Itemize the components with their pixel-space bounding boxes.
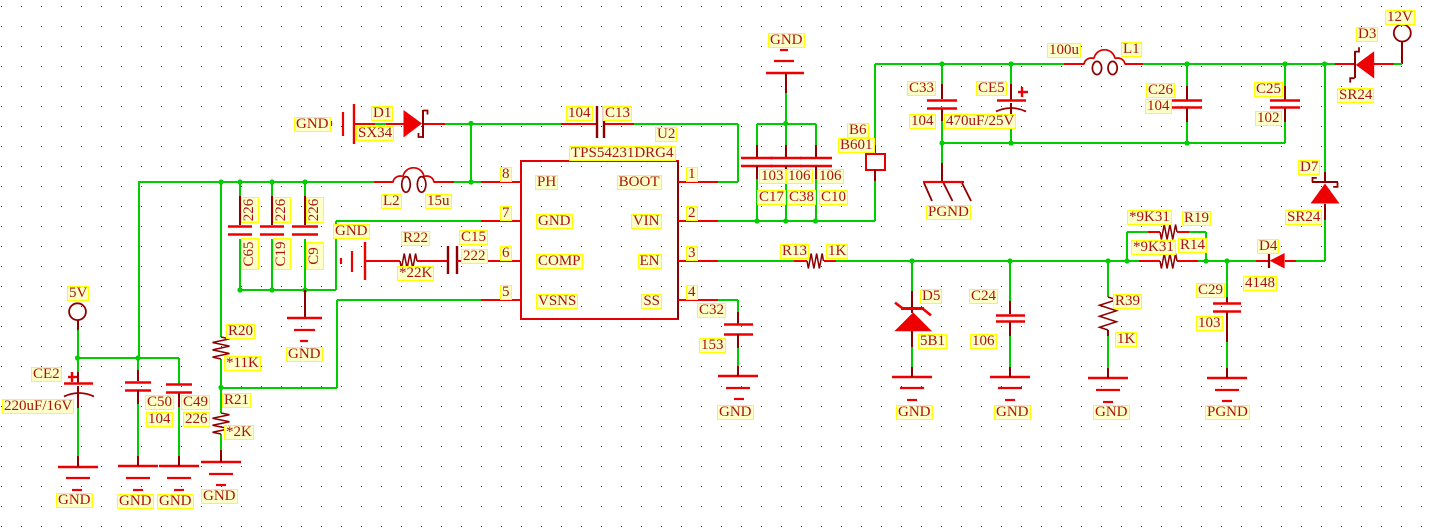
wire top rail VOUT y=64 from B6 to 12V	[875, 63, 1064, 65]
inductor L2 15u	[374, 181, 393, 183]
wire VSNS row y=300	[337, 299, 481, 301]
label 226 C65 rotated	[241, 197, 259, 223]
resistor R14 *9K31	[1139, 260, 1160, 262]
label 104 C26	[1145, 99, 1172, 114]
ground sideways for D1	[353, 104, 355, 144]
wire VSNS vertical x=337	[336, 300, 338, 388]
label C10	[819, 190, 848, 205]
label 103 C29	[1196, 316, 1223, 331]
capacitor C15 222	[447, 246, 449, 274]
label 106 C10	[817, 169, 844, 184]
label D5	[920, 289, 942, 304]
pin number 2	[686, 206, 698, 221]
label GND R22	[333, 224, 370, 239]
wire feedback row y=387.5	[221, 387, 337, 389]
pin name BOOT	[617, 175, 662, 190]
label 1K R13	[826, 244, 848, 259]
label C50	[145, 395, 174, 410]
wire CE5 drops	[1010, 64, 1012, 84]
wire D1 node row y=123.5	[445, 123, 561, 125]
label PGND C33	[926, 205, 971, 220]
label C38	[787, 190, 816, 205]
label GND under C9	[286, 347, 323, 362]
label 153 C32	[699, 338, 726, 353]
ground PGND under C29	[1207, 377, 1247, 379]
label C15	[459, 230, 488, 245]
power port 5V	[69, 303, 86, 320]
ground under C50	[118, 465, 158, 467]
pin number 3	[686, 246, 698, 261]
resistor R19 *9K31	[1148, 231, 1160, 233]
label 226 C49	[183, 412, 210, 427]
capacitor C10 106	[815, 145, 817, 158]
capacitor C50 104	[137, 370, 139, 381]
label 102 C25	[1255, 111, 1282, 126]
pin name VIN	[631, 214, 662, 229]
pin name VSNS	[536, 294, 578, 309]
label 104 C13	[566, 106, 593, 121]
wire R39 drops	[1107, 261, 1109, 297]
label 103 C17	[759, 169, 786, 184]
IC U2 TPS54231DRG4 body	[521, 161, 678, 319]
wire C24 drops	[1009, 261, 1011, 301]
capacitor CE2 220uF/16V electrolytic	[77, 372, 79, 383]
label PGND under C29	[1205, 405, 1250, 420]
wire 5V row y=358	[78, 357, 179, 359]
junction dots	[468, 121, 473, 126]
inductor L1 100u	[1064, 63, 1084, 65]
label 1K R39	[1115, 332, 1137, 347]
label B6	[847, 123, 869, 138]
capacitor C32 153	[737, 312, 739, 324]
label 220uF/16V	[2, 399, 74, 414]
wire 12V drop	[1401, 41, 1403, 64]
wire B6 bottom riser	[874, 181, 876, 221]
wire D4 to D7 segment	[1296, 260, 1325, 262]
label 12V	[1385, 10, 1415, 25]
label C33	[907, 81, 936, 96]
label C65 rotated	[241, 238, 259, 270]
wire R20-R21 segments	[220, 359, 222, 388]
wire rail-B y=143 C33..C25	[942, 142, 1285, 144]
label D7	[1298, 160, 1320, 175]
plus sign CE5	[1018, 91, 1028, 93]
label GND under R39	[1093, 405, 1130, 420]
pin number 7	[500, 206, 512, 221]
wire CE2 drops	[77, 330, 79, 358]
label 5B1	[918, 334, 947, 349]
label R19	[1182, 211, 1211, 226]
capacitor C26 104	[1186, 86, 1188, 100]
diode D3 SR24 schottky	[1335, 63, 1354, 65]
pin name PH	[535, 175, 558, 190]
wire R21 drop to gnd	[220, 434, 222, 450]
diode D4 4148	[1250, 260, 1256, 262]
capacitor C29 103	[1226, 297, 1228, 303]
label 104 C50	[146, 412, 173, 427]
label C24	[969, 289, 998, 304]
label GND under R21	[201, 489, 238, 504]
capacitor C24 106	[1009, 301, 1011, 314]
resistor R22 *22K	[365, 260, 400, 262]
label L2	[381, 194, 402, 209]
label R22	[401, 231, 430, 246]
wire C32 drops	[737, 348, 739, 366]
pin name GND	[536, 214, 573, 229]
label 9K31 R19	[1127, 210, 1172, 225]
resistor R39 1K vertical	[1100, 297, 1117, 330]
wire D1 junction drop x=471	[470, 124, 472, 182]
label GND top	[768, 33, 805, 48]
label B601	[838, 138, 875, 153]
wire C49 drops	[178, 407, 180, 456]
resistor R21 *2K vertical	[213, 413, 230, 434]
wire R20 top drop	[220, 182, 222, 337]
zener diode D5 5B1	[911, 291, 913, 313]
label R39	[1113, 294, 1142, 309]
label SR24 D7	[1285, 210, 1322, 225]
wire D5 drops	[911, 261, 913, 291]
wire GND stem to C38 col	[785, 93, 787, 124]
label D4	[1257, 239, 1279, 254]
wire C29 drops	[1226, 261, 1228, 297]
wire EN row y=261	[718, 260, 794, 262]
resistor R13 1K	[794, 260, 807, 262]
label GND under D5	[896, 405, 933, 420]
wire C50 drops	[137, 358, 139, 370]
ground under C24	[990, 376, 1030, 378]
capacitor C49 226	[166, 383, 192, 386]
capacitor C38 106	[785, 145, 787, 158]
pin number 4	[686, 285, 698, 300]
label 9K31 R14	[1131, 240, 1176, 255]
pin number 6	[500, 246, 512, 261]
pin name COMP	[536, 254, 583, 269]
label C29	[1196, 283, 1225, 298]
pin name SS	[641, 294, 662, 309]
label C49	[181, 395, 210, 410]
pin number 8	[500, 167, 512, 182]
ground PGND hatched under C33	[941, 163, 943, 182]
label CE5	[976, 81, 1007, 96]
ground under CE2	[58, 466, 98, 468]
label 100u	[1047, 43, 1081, 58]
label 226 C9 rotated	[306, 197, 324, 223]
capacitor C17 103	[756, 145, 758, 158]
label GND under C32	[717, 405, 754, 420]
wire R19 branch	[1126, 232, 1128, 261]
diode D7 SR24 schottky vertical	[1324, 172, 1326, 182]
label C26	[1146, 83, 1175, 98]
wire left vertical x=139	[138, 181, 140, 358]
wire SS row y=300	[718, 299, 738, 301]
label *11K	[224, 356, 261, 371]
wire VIN row y=221	[718, 220, 875, 222]
capacitors C65 C19 C9 226	[228, 225, 252, 228]
wire C33 drops	[941, 64, 943, 84]
wire C17 top bus y=123.5	[757, 123, 816, 125]
ground sideways for R22	[364, 242, 366, 280]
label 104 C33	[909, 114, 936, 129]
label C19 rotated	[273, 238, 291, 270]
label GND under C24	[994, 405, 1031, 420]
IC U2 pin stubs	[481, 181, 522, 183]
label 4148	[1243, 276, 1277, 291]
label C13	[603, 106, 632, 121]
ground under C32	[718, 375, 758, 377]
wire PH row y=182 left rail	[139, 181, 374, 183]
capacitor C25 102	[1284, 86, 1286, 100]
wire C49 drop x=179	[178, 358, 180, 384]
ground under D5	[892, 376, 932, 378]
wire C65 stems green	[239, 182, 241, 196]
wire D7 top riser	[1324, 64, 1326, 172]
resistor R20 *11K vertical	[213, 337, 230, 359]
diode D1 SX34 schottky	[355, 123, 375, 125]
label SR24 D3	[1337, 88, 1374, 103]
ground under R21	[201, 461, 241, 463]
label *22K	[397, 266, 434, 281]
ground under C9 column	[304, 290, 306, 318]
ground under C49	[159, 465, 199, 467]
power port 12V	[1394, 25, 1411, 42]
capacitor CE5 470uF/25V electrolytic	[1010, 84, 1012, 100]
ground under R39	[1088, 377, 1128, 379]
label 226 C19 rotated	[273, 197, 291, 223]
label C9 rotated	[306, 242, 324, 270]
label L1	[1121, 42, 1142, 57]
wire GND pin7 row y=221	[336, 220, 481, 222]
ferrite bead B6 B601	[874, 145, 876, 154]
label GND under C50	[117, 494, 154, 509]
label U2	[655, 127, 677, 142]
label 470uF/25V	[944, 114, 1016, 129]
wire B6 top riser	[874, 64, 876, 145]
label *2K	[224, 425, 254, 440]
wire pin7 vertical x=336	[335, 221, 337, 290]
label GND under C49	[157, 494, 194, 509]
label 15u	[425, 194, 452, 209]
label GND for D1	[294, 117, 331, 132]
wire C17 C38 C10 drops	[756, 124, 758, 145]
pin name EN	[638, 254, 662, 269]
label R21	[222, 393, 251, 408]
pin number 5	[500, 285, 512, 300]
label D3	[1356, 27, 1378, 42]
label 5V	[67, 286, 89, 301]
wire C65 bottom row y=290	[240, 289, 336, 291]
label D1	[371, 106, 393, 121]
plus sign CE2	[68, 376, 77, 378]
label TPS54231DRG4	[569, 146, 676, 161]
label 222 C15	[461, 249, 488, 264]
label R20	[226, 324, 255, 339]
label R14	[1178, 238, 1207, 253]
capacitor C33 104	[941, 84, 943, 99]
ground power port top (above C38)	[780, 49, 788, 51]
label C25	[1254, 82, 1283, 97]
wire C25 drops	[1284, 64, 1286, 86]
wire BOOT drop x=737.5	[737, 124, 739, 182]
label SX34	[356, 126, 394, 141]
label 106 C24	[970, 334, 997, 349]
pin number 1	[686, 167, 698, 182]
label R13	[780, 244, 809, 259]
wire C26 drops	[1186, 64, 1188, 86]
label C32	[697, 303, 726, 318]
capacitor C13 104	[561, 123, 596, 125]
label 106 C38	[786, 169, 813, 184]
label GND under CE2	[56, 493, 93, 508]
label C17	[757, 190, 786, 205]
label CE2	[31, 367, 62, 382]
